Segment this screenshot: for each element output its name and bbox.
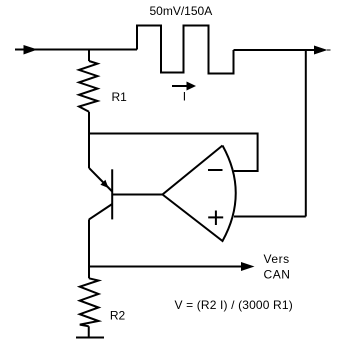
- svg-text:CAN: CAN: [264, 267, 291, 281]
- transistor Q1 emitter arrowhead: [100, 180, 108, 188]
- wire output right: [234, 49, 316, 51]
- wire R2 bottom lead: [88, 326, 90, 337]
- wire rail transistor to R2: [88, 219, 90, 278]
- wire input left: [15, 49, 137, 51]
- transistor Q1 base bar: [111, 169, 113, 219]
- arrowhead output: [314, 46, 328, 55]
- op-amp U1: [163, 146, 236, 242]
- arrowhead Vers CAN: [241, 262, 255, 271]
- arrowhead input: [24, 45, 38, 55]
- svg-text:50mV/150A: 50mV/150A: [150, 4, 213, 18]
- wire rail top to R1: [88, 49, 90, 62]
- resistor R1: [79, 61, 98, 112]
- wire plus input to right vertical: [234, 216, 306, 218]
- resistor R2: [80, 278, 99, 326]
- svg-text:V = (R2 I) / (3000 R1): V = (R2 I) / (3000 R1): [175, 298, 293, 312]
- svg-text:Vers: Vers: [264, 252, 290, 266]
- wire feedback to minus input: [89, 134, 258, 172]
- svg-text:R2: R2: [110, 309, 126, 323]
- wire vertical from top line to plus input: [305, 50, 307, 217]
- wire stub after output arrowhead: [327, 49, 331, 51]
- transistor Q1 emitter diagonal: [89, 168, 112, 192]
- op-amp minus input sign: [208, 169, 223, 171]
- current arrow I: [172, 85, 187, 87]
- wire base to op-amp: [112, 194, 162, 196]
- svg-text:R1: R1: [112, 90, 128, 104]
- terminal bar: [76, 337, 104, 339]
- wire rail R1 to transistor: [88, 112, 90, 168]
- op-amp plus input sign: [208, 216, 223, 218]
- svg-text:I: I: [183, 90, 186, 104]
- wire Vers CAN: [89, 266, 242, 268]
- transistor Q1 collector diagonal: [89, 204, 112, 219]
- shunt 50mV/150A meander: [137, 26, 234, 74]
